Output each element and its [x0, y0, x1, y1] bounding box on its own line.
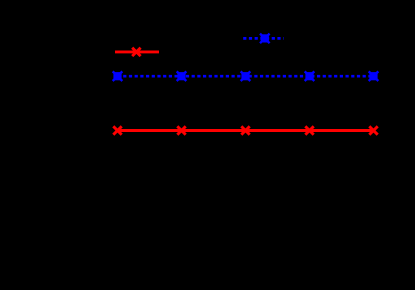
- blue series markers: squares with x: [113, 71, 379, 81]
- legend sample: blue dashed line: [243, 37, 283, 40]
- blue series dashed line: [118, 75, 374, 78]
- red series solid line: [118, 129, 374, 132]
- legend sample: red solid line: [115, 50, 159, 53]
- red series markers: x: [113, 126, 377, 134]
- legend marker: red x: [132, 48, 140, 56]
- legend marker: blue square with x: [260, 34, 270, 44]
